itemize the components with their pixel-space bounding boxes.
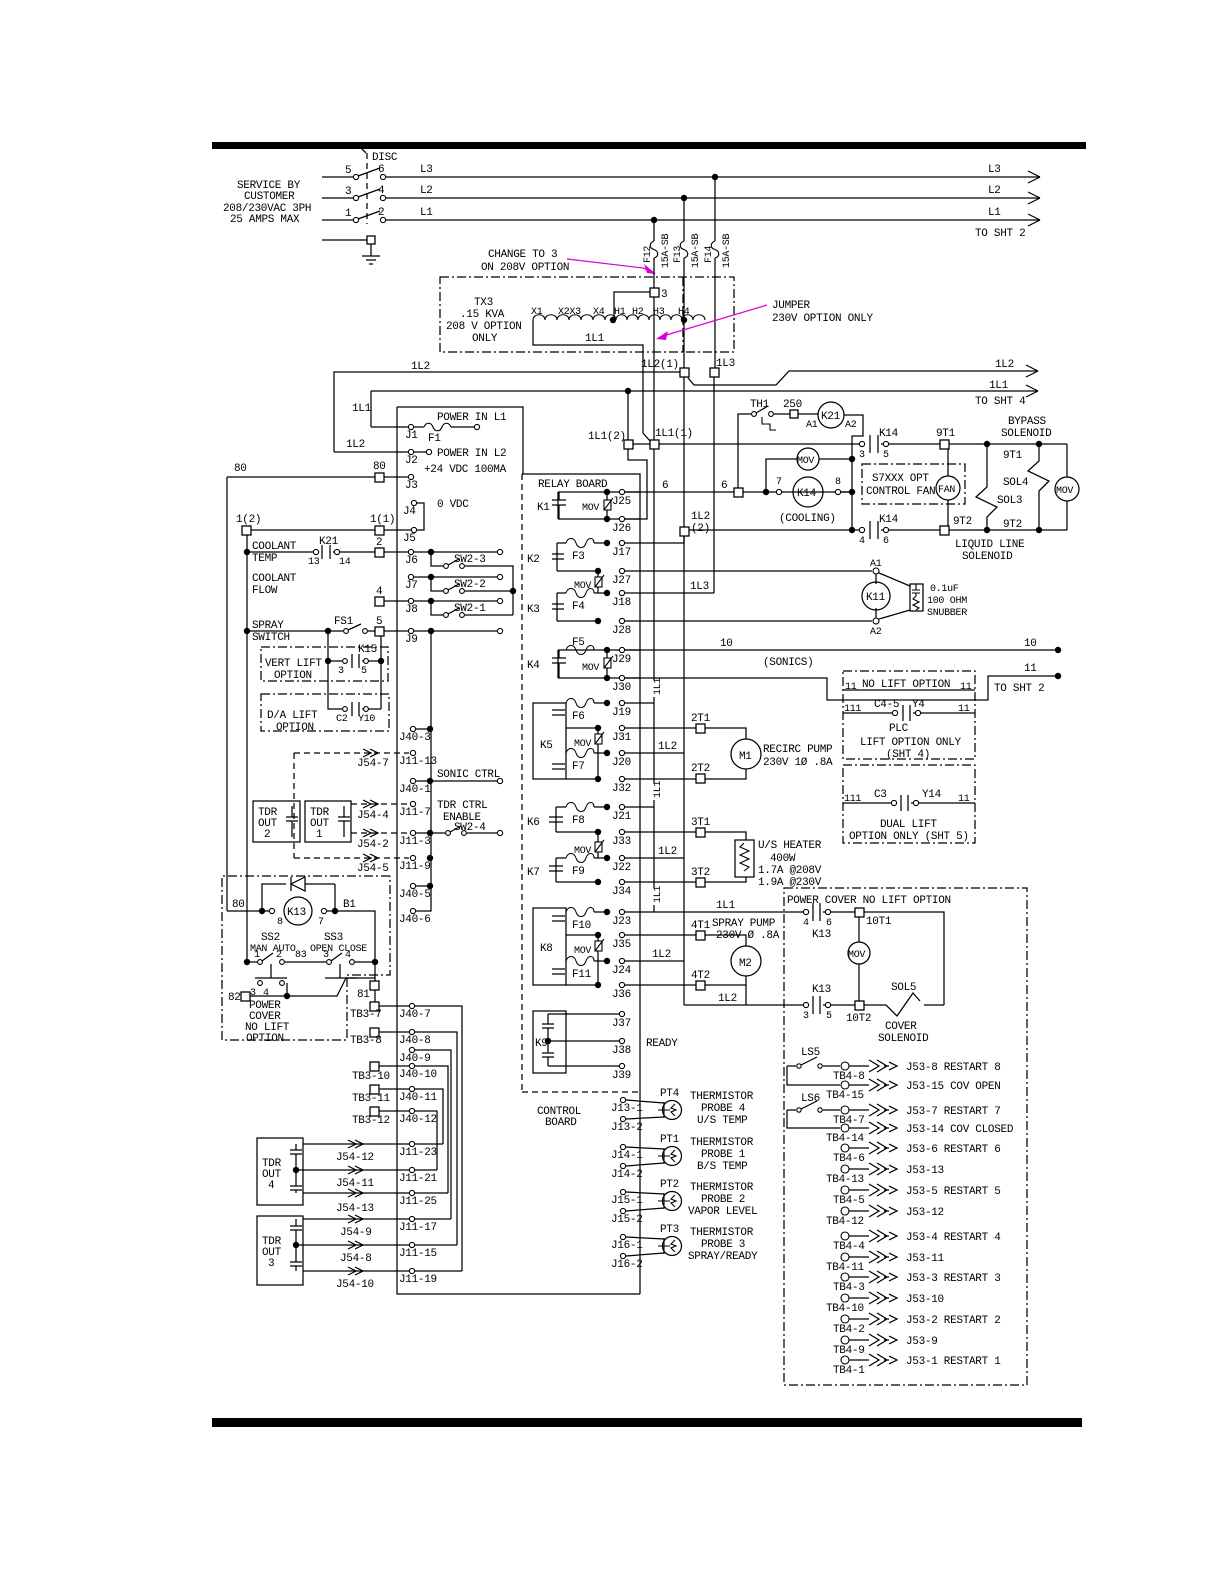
svg-text:J40-1: J40-1 <box>399 784 431 796</box>
wire J54-13 to J11-25 <box>303 1192 409 1194</box>
node spray switch <box>244 628 250 634</box>
svg-text:U/S TEMP: U/S TEMP <box>697 1115 748 1127</box>
svg-text:F14: F14 <box>704 246 715 263</box>
terminal TB4-10 <box>841 1294 849 1302</box>
terminal TB4-9 <box>841 1336 849 1344</box>
svg-text:1L2: 1L2 <box>652 949 671 961</box>
svg-text:14: 14 <box>339 557 351 568</box>
svg-text:TB3-11: TB3-11 <box>352 1093 391 1105</box>
svg-text:TB3-10: TB3-10 <box>352 1071 390 1083</box>
svg-text:L3: L3 <box>420 164 433 176</box>
svg-text:J11-19: J11-19 <box>399 1274 437 1286</box>
svg-text:TB4-10: TB4-10 <box>826 1303 864 1315</box>
top border bar <box>212 142 1086 149</box>
svg-text:3: 3 <box>268 1258 274 1270</box>
svg-text:SW2-4: SW2-4 <box>454 822 486 834</box>
contact K14 4-6 <box>849 527 855 533</box>
wire 1L2 bottom <box>684 1004 803 1006</box>
wire row 1L1 contacts <box>633 443 860 445</box>
svg-text:TB4-7: TB4-7 <box>833 1115 865 1127</box>
svg-text:SOL3: SOL3 <box>997 495 1022 507</box>
control board outline <box>397 407 640 1294</box>
svg-text:J53-8 RESTART 8: J53-8 RESTART 8 <box>906 1062 1001 1074</box>
svg-text:K13: K13 <box>812 929 831 941</box>
svg-text:J54-13: J54-13 <box>336 1203 374 1215</box>
capacitor TDR1 <box>338 806 350 837</box>
svg-text:1L1: 1L1 <box>653 781 664 798</box>
svg-text:MOV: MOV <box>574 946 591 957</box>
wire J54-7 to J11-13 <box>294 752 409 754</box>
svg-text:PT3: PT3 <box>660 1224 679 1236</box>
svg-text:J31: J31 <box>612 732 632 744</box>
svg-text:H3: H3 <box>653 307 665 318</box>
svg-text:J4: J4 <box>403 506 416 518</box>
svg-text:B1: B1 <box>343 899 356 911</box>
svg-text:9T2: 9T2 <box>953 516 972 528</box>
svg-text:A2: A2 <box>845 420 857 431</box>
d/a lift option box <box>261 694 389 731</box>
terminal 1(1) <box>375 526 384 535</box>
svg-text:J3: J3 <box>405 480 418 492</box>
svg-text:J32: J32 <box>612 783 631 795</box>
SS2 common bar <box>255 964 287 978</box>
wire 1L3 bus <box>713 377 715 593</box>
svg-text:1: 1 <box>254 950 260 961</box>
svg-text:C4-5: C4-5 <box>874 699 899 711</box>
svg-text:SS3: SS3 <box>324 932 343 944</box>
svg-text:(SONICS): (SONICS) <box>763 657 813 669</box>
svg-text:J54-2: J54-2 <box>357 839 389 851</box>
svg-text:J14-2: J14-2 <box>611 1169 643 1181</box>
terminal 81 <box>370 981 379 990</box>
svg-text:TB4-15: TB4-15 <box>826 1090 864 1102</box>
svg-text:X1: X1 <box>531 307 543 318</box>
power in L2: pin J2 <box>334 451 409 453</box>
pin J3 <box>408 474 413 479</box>
wire L2 <box>386 197 1040 199</box>
relay K2 / fuse F3 <box>556 543 558 571</box>
svg-text:J53-12: J53-12 <box>906 1207 944 1219</box>
svg-text:J53-3 RESTART 3: J53-3 RESTART 3 <box>906 1273 1001 1285</box>
svg-text:PLC: PLC <box>889 723 909 735</box>
svg-text:K2: K2 <box>527 554 540 566</box>
svg-text:1L1: 1L1 <box>716 900 736 912</box>
svg-text:J54-10: J54-10 <box>336 1279 374 1291</box>
svg-text:TB4-2: TB4-2 <box>833 1324 865 1336</box>
terminal 2T1 <box>696 724 705 733</box>
svg-text:K3: K3 <box>527 604 540 616</box>
svg-text:K14: K14 <box>879 514 899 526</box>
wire J18 to 1L3 <box>624 592 714 594</box>
svg-text:400W: 400W <box>770 853 796 865</box>
selector SS3 OPEN CLOSE <box>327 960 332 965</box>
relay K5 / fuses F6 F7 <box>533 703 566 779</box>
svg-text:2: 2 <box>378 207 384 219</box>
svg-text:8: 8 <box>277 917 283 928</box>
svg-text:SPRAY: SPRAY <box>252 620 284 632</box>
svg-text:SOL4: SOL4 <box>1003 477 1029 489</box>
svg-text:MOV: MOV <box>574 846 591 857</box>
svg-text:J53-2 RESTART 2: J53-2 RESTART 2 <box>906 1315 1001 1327</box>
terminal TB3-7 <box>370 1002 379 1011</box>
svg-text:SOLENOID: SOLENOID <box>878 1033 929 1045</box>
pin J40-6 <box>410 908 415 913</box>
svg-text:1.9A @230V: 1.9A @230V <box>758 877 822 889</box>
svg-text:MOV: MOV <box>574 739 591 750</box>
wire L3 service <box>322 176 353 178</box>
svg-text:6: 6 <box>826 918 832 929</box>
terminal 3T2 <box>696 878 705 887</box>
pin J37 <box>619 1011 624 1016</box>
pin J40-9 <box>409 1047 414 1052</box>
terminal 9T1 <box>940 440 949 449</box>
node L3 junction <box>712 174 718 180</box>
svg-text:1L2: 1L2 <box>658 741 677 753</box>
svg-text:15A-SB: 15A-SB <box>722 233 733 268</box>
svg-text:RELAY BOARD: RELAY BOARD <box>538 479 608 491</box>
svg-text:10T2: 10T2 <box>846 1013 871 1025</box>
svg-text:1(2): 1(2) <box>236 514 261 526</box>
svg-text:4: 4 <box>345 950 351 961</box>
wire K21 A2 jog <box>844 415 863 530</box>
svg-text:J53-14 COV CLOSED: J53-14 COV CLOSED <box>906 1124 1014 1136</box>
svg-text:Y14: Y14 <box>922 789 942 801</box>
svg-text:NO LIFT OPTION: NO LIFT OPTION <box>862 679 950 691</box>
svg-text:25 AMPS MAX: 25 AMPS MAX <box>230 214 300 226</box>
ground symbol <box>362 244 380 264</box>
svg-text:OPEN CLOSE: OPEN CLOSE <box>310 944 367 955</box>
svg-text:J40-6: J40-6 <box>399 914 431 926</box>
node coolant temp <box>244 549 250 555</box>
svg-text:K6: K6 <box>527 817 540 829</box>
svg-text:J40-7: J40-7 <box>399 1009 431 1021</box>
contact C4-5 Y4 <box>843 712 892 714</box>
svg-text:J53-6 RESTART 6: J53-6 RESTART 6 <box>906 1144 1001 1156</box>
svg-text:TEMP: TEMP <box>252 553 278 565</box>
svg-text:5: 5 <box>361 666 367 677</box>
svg-text:4T2: 4T2 <box>691 970 710 982</box>
svg-text:DUAL LIFT: DUAL LIFT <box>880 819 937 831</box>
svg-text:SOLENOID: SOLENOID <box>962 551 1013 563</box>
SS3 common bar <box>325 964 357 978</box>
rail 1(2) down <box>246 535 248 962</box>
selector SS2 MAN AUTO <box>261 932 343 944</box>
contact K21 13-14 <box>247 551 313 553</box>
capacitor TDR4 pair <box>290 1144 302 1193</box>
svg-text:POWER IN L2: POWER IN L2 <box>437 448 506 460</box>
transformer TX3 option box <box>440 277 734 352</box>
TDR OUT 1 block <box>305 801 351 842</box>
svg-text:2: 2 <box>376 537 382 549</box>
svg-text:4: 4 <box>378 185 385 197</box>
wire L3 <box>386 176 1040 178</box>
svg-text:11: 11 <box>958 794 970 805</box>
terminal 4 / pin J8 / switch SW2-1 <box>375 597 384 606</box>
terminal TB4-5 <box>841 1186 849 1194</box>
svg-text:TO SHT 2: TO SHT 2 <box>975 228 1025 240</box>
magenta leader to F12 <box>567 259 652 272</box>
svg-text:2: 2 <box>264 829 270 841</box>
svg-text:C3: C3 <box>874 789 887 801</box>
svg-text:J14-1: J14-1 <box>611 1150 643 1162</box>
varistor MOV cover <box>858 917 860 942</box>
svg-text:250: 250 <box>783 399 802 411</box>
bus J9 to J40-6 <box>416 631 431 911</box>
arrows L3 L2 L1 to sheet 2 <box>1028 171 1040 183</box>
svg-text:11: 11 <box>845 682 857 693</box>
wire terminal3 to X4/H1 tap <box>614 292 650 319</box>
svg-text:THERMISTOR: THERMISTOR <box>690 1091 754 1103</box>
svg-text:J11-21: J11-21 <box>399 1173 438 1185</box>
svg-text:ONLY: ONLY <box>472 333 498 345</box>
svg-text:10: 10 <box>720 638 733 650</box>
svg-text:111: 111 <box>844 704 861 715</box>
pin J26 <box>619 516 624 521</box>
svg-text:CUSTOMER: CUSTOMER <box>244 191 295 203</box>
svg-text:F5: F5 <box>572 637 585 649</box>
svg-text:J7: J7 <box>405 580 418 592</box>
svg-text:7: 7 <box>318 917 324 928</box>
terminal 1(2) <box>242 526 251 535</box>
svg-text:J53-7 RESTART 7: J53-7 RESTART 7 <box>906 1106 1001 1118</box>
svg-text:J11-9: J11-9 <box>399 861 431 873</box>
svg-text:TB4-1: TB4-1 <box>833 1365 865 1377</box>
svg-text:J8: J8 <box>405 604 418 616</box>
svg-text:9T2: 9T2 <box>1003 519 1022 531</box>
svg-text:FAN: FAN <box>938 485 955 496</box>
svg-text:J11-15: J11-15 <box>399 1248 437 1260</box>
pin J30 / wire 11 sonics <box>619 675 624 680</box>
svg-text:1L1(2): 1L1(2) <box>588 431 626 443</box>
svg-text:K11: K11 <box>866 592 886 604</box>
svg-text:SWITCH: SWITCH <box>252 632 290 644</box>
svg-text:J19: J19 <box>612 707 631 719</box>
svg-text:J29: J29 <box>612 654 631 666</box>
relay board dashed box <box>522 474 640 1294</box>
svg-text:9T1: 9T1 <box>1003 450 1023 462</box>
svg-text:POWER IN L1: POWER IN L1 <box>437 412 507 424</box>
terminal TB3-10 <box>370 1062 379 1071</box>
svg-text:1L2: 1L2 <box>346 439 365 451</box>
svg-text:SONIC CTRL: SONIC CTRL <box>437 769 500 781</box>
terminal TB3-12 <box>370 1107 379 1116</box>
svg-text:J40-3: J40-3 <box>399 732 431 744</box>
svg-text:L1: L1 <box>988 207 1001 219</box>
svg-text:J33: J33 <box>612 836 631 848</box>
svg-text:PROBE 1: PROBE 1 <box>701 1149 746 1161</box>
svg-text:K21: K21 <box>319 536 339 548</box>
diode across K13 <box>262 884 335 911</box>
svg-text:J53-4 RESTART 4: J53-4 RESTART 4 <box>906 1232 1001 1244</box>
svg-text:11: 11 <box>960 682 972 693</box>
svg-text:J54-4: J54-4 <box>357 810 389 822</box>
solenoid SOL3 <box>976 444 997 530</box>
terminal 4T1 <box>696 931 705 940</box>
svg-text:J40-5: J40-5 <box>399 889 431 901</box>
svg-text:11: 11 <box>958 704 970 715</box>
terminal TB4-4 <box>841 1232 849 1240</box>
svg-text:OPTION: OPTION <box>276 722 314 734</box>
svg-text:THERMISTOR: THERMISTOR <box>690 1137 754 1149</box>
note JUMPER 230V OPTION ONLY <box>772 300 874 325</box>
wire J54-5 to J11-9 <box>294 857 409 859</box>
svg-text:TO SHT 4: TO SHT 4 <box>975 396 1026 408</box>
svg-text:11: 11 <box>1024 663 1037 675</box>
svg-text:F9: F9 <box>572 866 585 878</box>
svg-text:1.7A @208V: 1.7A @208V <box>758 865 822 877</box>
motor M2 spray pump <box>705 935 746 946</box>
svg-text:10: 10 <box>1024 638 1037 650</box>
svg-text:MOV: MOV <box>582 663 599 674</box>
terminal 80 <box>375 473 384 482</box>
snubber 0.1uF 100 OHM <box>879 573 910 619</box>
svg-text:SPRAY/READY: SPRAY/READY <box>688 1251 758 1263</box>
svg-text:J18: J18 <box>612 597 631 609</box>
svg-text:TB4-8: TB4-8 <box>833 1071 865 1083</box>
wire J54-11 to J11-21 <box>296 1169 409 1171</box>
svg-text:F8: F8 <box>572 815 585 827</box>
terminal TB4-2 <box>841 1315 849 1323</box>
svg-text:208 V OPTION: 208 V OPTION <box>446 321 522 333</box>
svg-text:J40-9: J40-9 <box>399 1053 431 1065</box>
node L1 junction <box>651 217 657 223</box>
svg-text:POWER COVER NO LIFT OPTION: POWER COVER NO LIFT OPTION <box>787 895 951 907</box>
svg-text:M2: M2 <box>739 958 752 970</box>
svg-text:1L2: 1L2 <box>718 993 737 1005</box>
svg-text:4: 4 <box>263 988 269 999</box>
svg-text:A1: A1 <box>806 420 818 431</box>
solenoid SOL4 <box>1028 444 1049 530</box>
svg-text:15A-SB: 15A-SB <box>661 233 672 268</box>
S7XXX OPT CONTROL FAN box <box>862 464 965 504</box>
svg-text:TB4-9: TB4-9 <box>833 1345 865 1357</box>
svg-text:J53-1 RESTART 1: J53-1 RESTART 1 <box>906 1356 1001 1368</box>
ground terminal square <box>367 236 375 244</box>
svg-text:LIQUID LINE: LIQUID LINE <box>955 539 1025 551</box>
svg-text:10T1: 10T1 <box>866 916 892 928</box>
capacitor TDR3 pair <box>290 1219 302 1271</box>
terminal TB4-11 <box>841 1253 849 1261</box>
terminal 2 <box>375 548 384 557</box>
svg-text:J38: J38 <box>612 1045 631 1057</box>
svg-text:C2: C2 <box>336 714 348 725</box>
svg-text:4: 4 <box>268 1180 275 1192</box>
svg-text:K5: K5 <box>540 740 553 752</box>
svg-text:J40-12: J40-12 <box>399 1114 437 1126</box>
TDR OUT 3 block <box>257 1216 303 1285</box>
svg-text:F11: F11 <box>572 969 592 981</box>
svg-text:1: 1 <box>316 829 323 841</box>
pin J7 / switch SW2-2 <box>408 574 413 579</box>
switch SW2-3 <box>414 551 497 553</box>
svg-text:15A-SB: 15A-SB <box>691 233 702 268</box>
svg-text:6: 6 <box>721 480 727 492</box>
svg-text:6: 6 <box>662 480 668 492</box>
svg-text:SW2-1: SW2-1 <box>454 603 486 615</box>
svg-text:S7XXX OPT: S7XXX OPT <box>872 473 929 485</box>
svg-text:SPRAY PUMP: SPRAY PUMP <box>712 918 776 930</box>
svg-text:4: 4 <box>859 536 865 547</box>
svg-text:J11-13: J11-13 <box>399 756 437 768</box>
svg-text:1L1: 1L1 <box>585 333 605 345</box>
svg-text:TH1: TH1 <box>750 399 770 411</box>
svg-text:K8: K8 <box>540 943 553 955</box>
power in L1: pin J1, fuse F1 <box>371 426 409 428</box>
wire L1 <box>386 219 1040 221</box>
svg-text:BOARD: BOARD <box>545 1117 577 1129</box>
switch DISC pole 5-6 <box>353 174 358 179</box>
terminal 1L2(1) <box>680 368 689 377</box>
svg-text:J16-2: J16-2 <box>611 1259 643 1271</box>
svg-text:J11-7: J11-7 <box>399 807 431 819</box>
rail 80 left <box>226 477 228 911</box>
switch DISC pole 1-2 <box>353 217 358 222</box>
contactor K11 sonics <box>873 568 879 574</box>
wire J54-10 to J11-19 <box>303 1270 409 1272</box>
power cover no lift option box <box>784 888 1027 1385</box>
power cover no lift option box left <box>222 876 390 1040</box>
svg-text:J25: J25 <box>612 496 631 508</box>
svg-text:K7: K7 <box>527 867 540 879</box>
svg-text:X2X3: X2X3 <box>558 307 581 318</box>
svg-text:K14: K14 <box>879 428 899 440</box>
svg-text:OPTION: OPTION <box>246 1033 284 1045</box>
svg-text:TB4-12: TB4-12 <box>826 1216 864 1228</box>
wire L1 service <box>322 219 353 221</box>
svg-text:TB3-12: TB3-12 <box>352 1115 390 1127</box>
svg-text:J26: J26 <box>612 523 631 535</box>
svg-text:ON 208V OPTION: ON 208V OPTION <box>481 262 569 274</box>
svg-text:F13: F13 <box>673 246 684 263</box>
svg-text:TO SHT 2: TO SHT 2 <box>994 683 1044 695</box>
svg-text:80: 80 <box>234 463 247 475</box>
svg-text:D/A LIFT: D/A LIFT <box>267 710 318 722</box>
svg-text:J54-5: J54-5 <box>357 863 389 875</box>
terminal 9T2 <box>940 526 949 535</box>
svg-text:SS2: SS2 <box>261 932 280 944</box>
relay K9 ready <box>533 1011 566 1073</box>
svg-text:TB3-8: TB3-8 <box>350 1035 382 1047</box>
svg-text:L1: L1 <box>420 207 433 219</box>
svg-text:K1: K1 <box>537 502 550 514</box>
svg-text:J54-8: J54-8 <box>340 1253 372 1265</box>
svg-text:SW2-2: SW2-2 <box>454 579 486 591</box>
svg-text:J37: J37 <box>612 1018 631 1030</box>
svg-text:3: 3 <box>345 186 351 198</box>
svg-text:F10: F10 <box>572 920 591 932</box>
terminal TB4-6 <box>841 1144 849 1152</box>
svg-text:81: 81 <box>357 989 370 1001</box>
svg-text:PROBE 4: PROBE 4 <box>701 1103 746 1115</box>
contact K14 3-5 <box>859 441 864 446</box>
svg-text:J54-9: J54-9 <box>340 1227 372 1239</box>
svg-text:TB4-11: TB4-11 <box>826 1262 865 1274</box>
terminal 1L2(2) <box>680 527 689 536</box>
svg-text:CHANGE TO 3: CHANGE TO 3 <box>488 249 557 261</box>
svg-text:3T1: 3T1 <box>691 817 711 829</box>
terminal 250 <box>774 413 790 415</box>
svg-text:J15-2: J15-2 <box>611 1214 643 1226</box>
pin J25 <box>619 489 624 494</box>
svg-text:J40-10: J40-10 <box>399 1069 437 1081</box>
wire J17 to 1L2(2) <box>624 536 684 543</box>
svg-text:J11-17: J11-17 <box>399 1222 437 1234</box>
svg-text:3: 3 <box>803 1011 809 1022</box>
svg-text:3: 3 <box>859 450 865 461</box>
svg-text:J16-1: J16-1 <box>611 1240 643 1252</box>
svg-text:MOV: MOV <box>574 581 591 592</box>
svg-text:TB4-5: TB4-5 <box>833 1195 865 1207</box>
